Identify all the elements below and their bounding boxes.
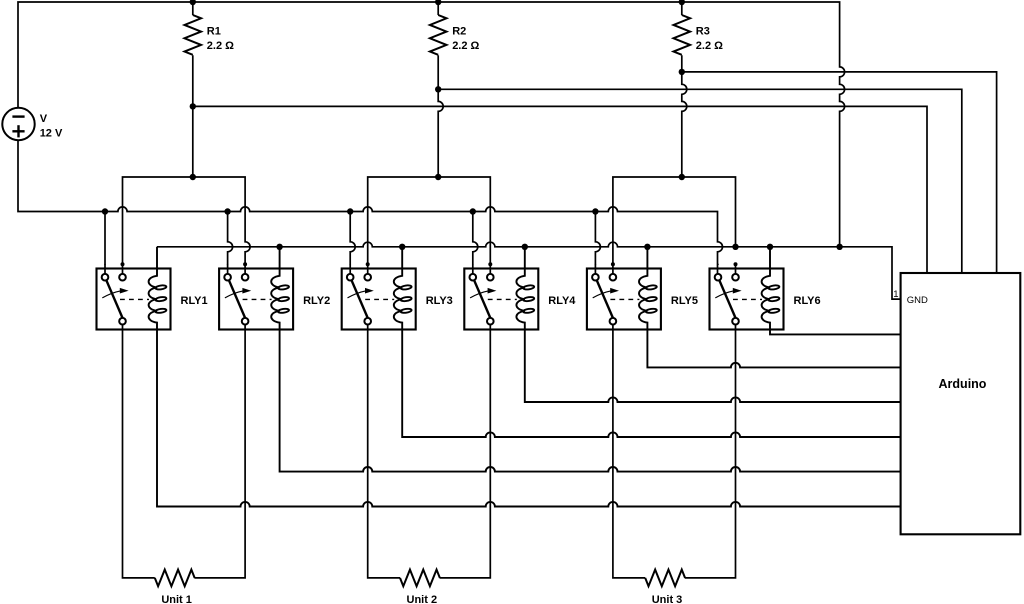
resistor Unit 1 load xyxy=(155,570,195,587)
wire: bus1 drop to RLY2 NC terminal xyxy=(228,212,233,275)
relay RLY4 xyxy=(464,247,900,402)
junction: R3 sense node xyxy=(679,69,685,75)
relay RLY6 xyxy=(710,247,901,335)
coil of RLY1 and wire: coil bottom to Arduino pin xyxy=(149,247,901,507)
wire: Unit 2 resistor right up to RLY4 common xyxy=(440,324,491,578)
resistor Unit 2 load xyxy=(400,570,440,587)
wire: bus1 drop to RLY4 NC terminal xyxy=(473,212,478,275)
switch lever of RLY2 xyxy=(229,280,245,318)
svg-text:Unit 3: Unit 3 xyxy=(652,594,683,604)
coil of RLY6 and wire: coil bottom to Arduino pin xyxy=(762,247,901,335)
junction: bus2 at RLY6 coil xyxy=(767,244,773,250)
junction: bus2 at R3 bracket drop xyxy=(732,244,738,250)
wire: R1 top stub xyxy=(192,2,194,15)
relay RLY3 xyxy=(342,247,901,437)
wire-end dot above RLY2 NO contact xyxy=(243,262,247,266)
wire: bus1 drop to RLY1 common-NC terminal xyxy=(104,212,106,275)
terminal circles of RLY3 xyxy=(347,274,354,281)
junction: bus2 at top-rail drop xyxy=(836,244,842,250)
svg-text:R3: R3 xyxy=(696,25,710,37)
wire: top rail from V source across R1 R2 R3 tops, down right side to coil bus xyxy=(18,2,845,247)
actuation arrow of RLY4 xyxy=(470,291,488,298)
wire: R3 top stub xyxy=(681,2,683,15)
wire-end dot above RLY4 NO contact xyxy=(488,262,492,266)
terminal circles of RLY2 xyxy=(224,274,231,281)
wire: bus1 drop to RLY3 NC terminal xyxy=(350,212,355,275)
wire: Unit 3 resistor right up to RLY6 common xyxy=(685,324,736,578)
junction: R2 top node xyxy=(435,0,441,5)
wire: R1 bottom to sense node and on down to bracket junction xyxy=(192,55,194,177)
svg-text:RLY3: RLY3 xyxy=(426,295,453,307)
wire: bracket R3 output to RLY5 NO contact and to bus2 xyxy=(613,177,736,274)
actuation arrow of RLY2 xyxy=(225,291,243,298)
wire: RLY3 common down to Unit 2 resistor left xyxy=(368,324,400,578)
wire: sense line from R2 bottom node to Arduino top pin xyxy=(438,89,962,273)
junction: bus2 at RLY3 coil xyxy=(399,244,405,250)
svg-text:2.2 Ω: 2.2 Ω xyxy=(452,40,479,52)
linkage dashed line of RLY5 xyxy=(610,298,639,300)
junction: R1 top node xyxy=(190,0,196,5)
resistor R1 xyxy=(185,15,202,55)
junction: bus2 at RLY2 coil xyxy=(276,244,282,250)
junction: bracket node R2 xyxy=(435,174,441,180)
wire: RLY5 common down to Unit 3 resistor left xyxy=(613,324,645,578)
switch lever of RLY6 xyxy=(719,280,735,318)
op-amp/mcu Arduino U1 box xyxy=(901,273,1021,534)
junction: R2 sense node xyxy=(435,86,441,92)
wire: bus1 drop to RLY5 NC terminal xyxy=(595,212,600,275)
terminal circles of RLY1 xyxy=(102,274,109,281)
svg-text:Arduino: Arduino xyxy=(939,377,987,391)
junction: bus1 at RLY1 xyxy=(102,208,108,214)
resistor R3 xyxy=(674,15,691,55)
wire-end dot above RLY6 NO contact xyxy=(734,262,738,266)
relay RLY5 xyxy=(587,247,901,368)
coil of RLY3 and wire: coil bottom to Arduino pin xyxy=(394,247,901,437)
wire: sense line from R1 bottom node to Arduino top pin xyxy=(193,106,927,273)
wire-end dot above RLY3 NO contact xyxy=(366,262,370,266)
linkage dashed line of RLY6 xyxy=(733,298,762,300)
svg-text:2.2 Ω: 2.2 Ω xyxy=(696,40,723,52)
wire: sense line from R3 bottom node to Arduino top pin xyxy=(682,72,997,273)
wire: RLY6 NO contact stub (unconnected) xyxy=(735,264,737,274)
terminal circles of RLY4 xyxy=(470,274,477,281)
svg-text:V: V xyxy=(40,113,48,125)
actuation arrow of RLY3 xyxy=(348,291,366,298)
svg-text:RLY4: RLY4 xyxy=(548,295,576,307)
linkage dashed line of RLY2 xyxy=(243,298,272,300)
junction: R1 sense node xyxy=(190,103,196,109)
wire: RLY1 common down to Unit 1 resistor left xyxy=(123,324,155,578)
wire: bracket R2 output to RLY3/RLY4 NO contacts xyxy=(368,177,491,274)
wire-end dot above RLY5 NO contact xyxy=(611,262,615,266)
terminal circles of RLY5 xyxy=(592,274,599,281)
junction: R3 top node xyxy=(679,0,685,5)
svg-text:RLY1: RLY1 xyxy=(181,295,208,307)
svg-text:12 V: 12 V xyxy=(40,128,63,140)
svg-text:2.2 Ω: 2.2 Ω xyxy=(207,40,234,52)
linkage dashed line of RLY1 xyxy=(120,298,149,300)
linkage dashed line of RLY3 xyxy=(365,298,394,300)
junction: bracket node R1 xyxy=(190,174,196,180)
svg-text:Unit 2: Unit 2 xyxy=(407,594,438,604)
junction: bus1 at RLY4 xyxy=(470,208,476,214)
actuation arrow of RLY5 xyxy=(593,291,611,298)
wire: R2 bottom to sense node and on down to bracket junction xyxy=(438,55,443,177)
junction: bracket node R3 xyxy=(679,174,685,180)
svg-text:R2: R2 xyxy=(452,25,466,37)
resistor R2 xyxy=(430,15,447,55)
svg-text:RLY2: RLY2 xyxy=(303,295,330,307)
relay RLY2 xyxy=(219,247,901,472)
svg-text:RLY5: RLY5 xyxy=(671,295,698,307)
svg-text:1: 1 xyxy=(893,289,898,300)
junction: bus2 at RLY5 coil xyxy=(644,244,650,250)
svg-text:R1: R1 xyxy=(207,25,221,37)
junction: bus1 at RLY2 xyxy=(224,208,230,214)
wire: R3 bottom to sense node and on down to bracket junction xyxy=(682,55,687,177)
resistor Unit 3 load xyxy=(645,570,685,587)
wire: R2 top stub xyxy=(437,2,439,15)
wire: bracket R1 output to RLY1/RLY2 NO contacts xyxy=(123,177,251,274)
actuation arrow of RLY6 xyxy=(715,291,733,298)
junction: bus1 at RLY3 xyxy=(347,208,353,214)
wire: Unit 1 resistor right up to RLY2 common xyxy=(194,324,245,578)
relay RLY1 xyxy=(97,247,901,507)
actuation arrow of RLY1 xyxy=(102,291,120,298)
coil of RLY5 and wire: coil bottom to Arduino pin xyxy=(639,247,901,368)
switch lever of RLY5 xyxy=(597,280,613,318)
coil of RLY4 and wire: coil bottom to Arduino pin xyxy=(516,247,900,402)
coil of RLY2 and wire: coil bottom to Arduino pin xyxy=(271,247,900,472)
linkage dashed line of RLY4 xyxy=(488,298,517,300)
wire: bus2 coil-common rail over to Arduino GND pin 1 xyxy=(157,242,901,299)
svg-text:GND: GND xyxy=(907,295,928,306)
voltage source V xyxy=(2,108,34,140)
junction: bus1 at RLY5 xyxy=(592,208,598,214)
wire: bus1 V+ rail from source bottom across to RLY6 left terminal xyxy=(18,141,723,275)
wire-end dot above RLY1 NO contact xyxy=(121,262,125,266)
switch lever of RLY4 xyxy=(474,280,490,318)
switch lever of RLY3 xyxy=(352,280,368,318)
svg-text:RLY6: RLY6 xyxy=(794,295,821,307)
terminal circles of RLY6 xyxy=(715,274,722,281)
switch lever of RLY1 xyxy=(106,280,122,318)
junction: bus2 at RLY4 coil xyxy=(522,244,528,250)
svg-text:Unit 1: Unit 1 xyxy=(161,594,192,604)
